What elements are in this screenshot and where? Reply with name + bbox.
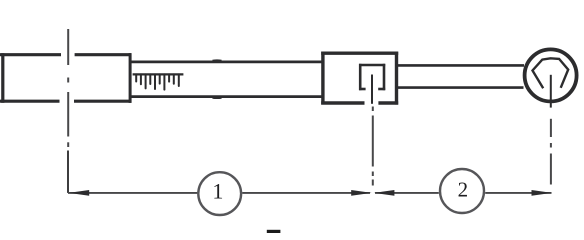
centerline A (break line through handle): [67, 29, 69, 147]
svg-text:2: 2: [458, 178, 469, 202]
scale (graduated ruler on shaft): [133, 73, 184, 75]
arrow 1 right: [351, 190, 371, 196]
shaft seam marks: [213, 61, 222, 98]
shaft (main beam between handle and ratchet body): [131, 62, 324, 97]
square drive (inner square, open at bottom): [359, 64, 385, 90]
head shaft (right thin beam): [398, 65, 524, 87]
hex socket (open hexagon inside head): [533, 58, 569, 88]
arrow 1 left: [69, 190, 90, 196]
balloon 1: [198, 172, 241, 215]
svg-text:1: 1: [212, 179, 223, 204]
bottom crop dash: [267, 230, 281, 233]
ratchet body (middle block): [321, 52, 398, 105]
dimension line 2: [375, 192, 552, 194]
arrow 2 right: [532, 190, 552, 196]
drive axis line (solid through drive and block bottom): [371, 75, 373, 104]
dimension line 1: [68, 192, 370, 194]
socket axis line: [550, 75, 552, 108]
arrow 2 left: [374, 190, 394, 196]
centerline C (below head, dash-dot): [550, 119, 552, 185]
balloon 2: [440, 169, 484, 213]
handle (left grip rectangle, broken by centerline): [0, 53, 131, 103]
extension line 1 (left, solid into dimension corner): [67, 151, 69, 193]
head ring (circular head): [525, 49, 577, 101]
centerline B (below ratchet body, dash-dot): [372, 107, 374, 186]
